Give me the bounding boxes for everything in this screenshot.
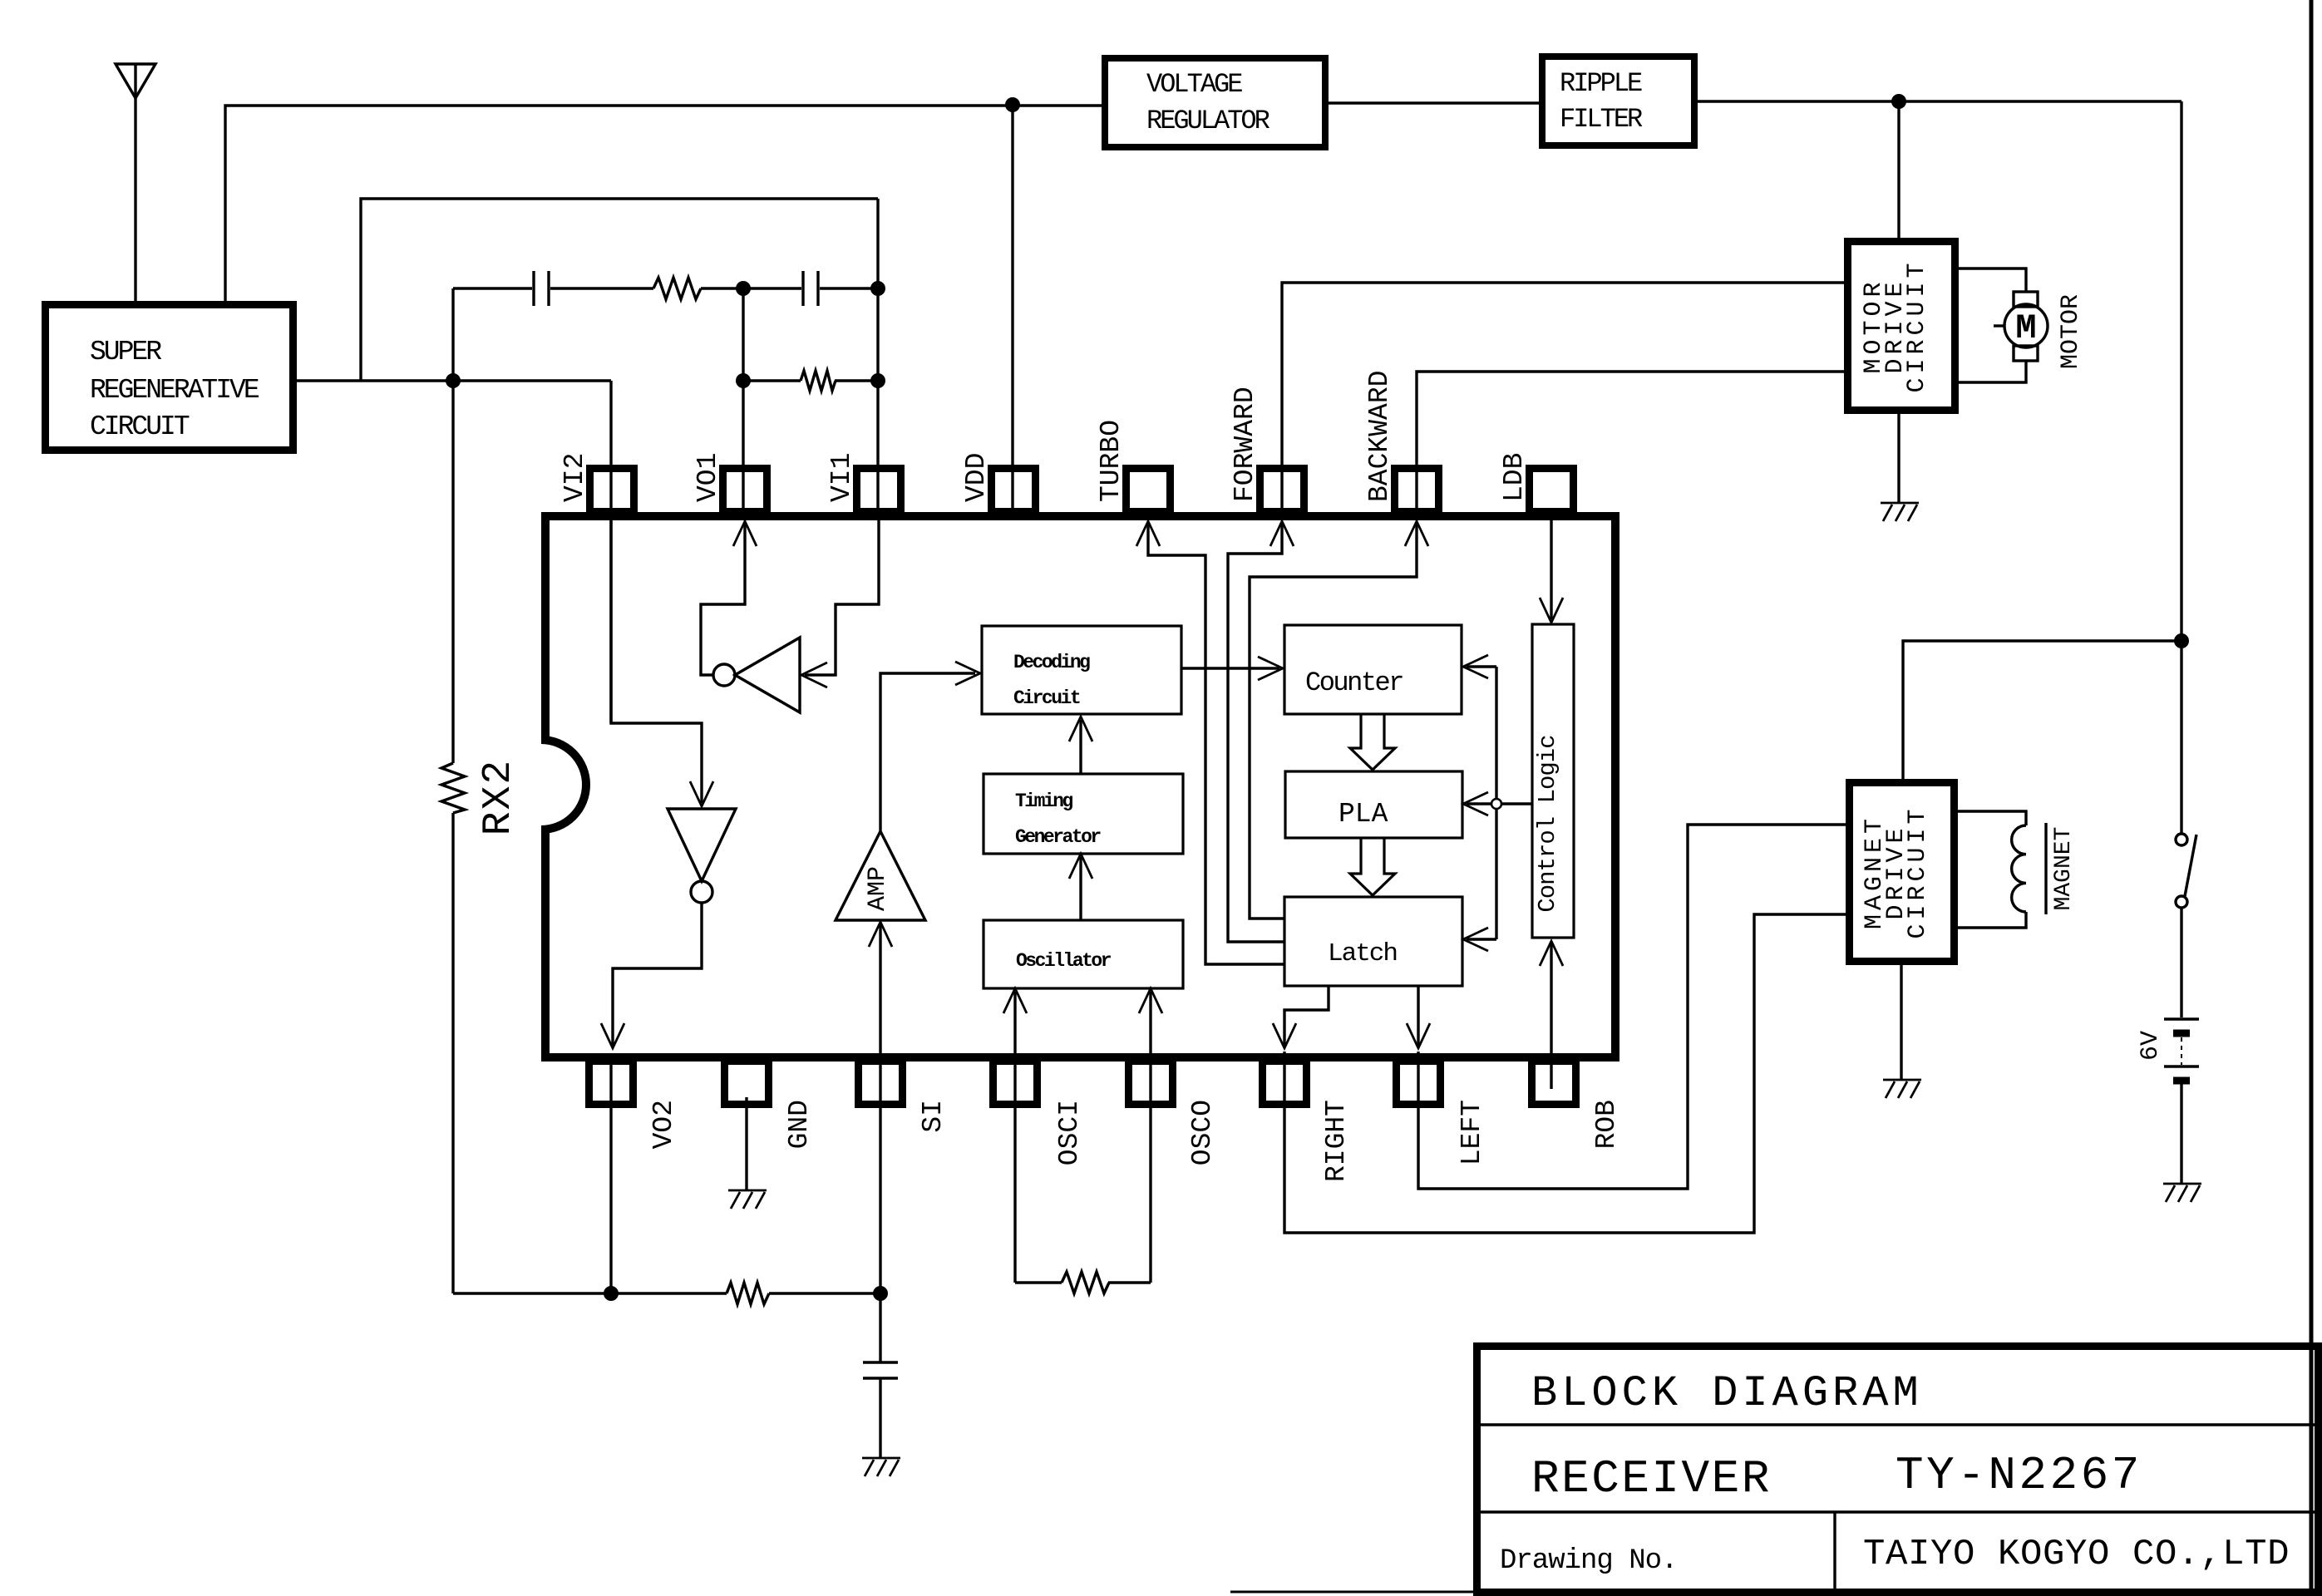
svg-text:MAGNET: MAGNET <box>2051 827 2077 911</box>
wire VI2 drop <box>609 381 612 723</box>
block arrow counter to PLA <box>1350 714 1395 770</box>
node feedback left <box>446 373 461 388</box>
wire switch to battery <box>2180 908 2182 1017</box>
capacitor C1 <box>534 271 549 306</box>
block arrow PLA to latch <box>1350 838 1395 895</box>
ground at battery <box>2163 1184 2201 1202</box>
wire VI1 drop <box>876 199 879 516</box>
resistor R1 <box>653 278 701 299</box>
pin VI1 <box>857 469 901 512</box>
wire R2 to VI1 line <box>835 379 878 382</box>
wire bottom chain left <box>453 1292 727 1294</box>
arrow into PLA right <box>1463 792 1488 815</box>
battery BT1 6V <box>2164 1017 2199 1020</box>
svg-text:TAIYO KOGYO CO.,LTD: TAIYO KOGYO CO.,LTD <box>1863 1534 2290 1575</box>
box MAGNET DRIVE CIRCUIT <box>1850 783 1955 962</box>
wire magnet drive to coil bottom <box>1955 912 2026 928</box>
wire branch up to VI1 bus <box>361 199 878 381</box>
inverter U2 bubble <box>691 881 712 903</box>
wire C3 to ground <box>879 1378 881 1458</box>
motor M1 <box>2004 304 2048 347</box>
arrow into inverter U2 <box>690 781 713 806</box>
wire VO2 external <box>609 1053 612 1293</box>
box Timing Generator <box>984 774 1183 854</box>
ground at GND pin <box>728 1190 767 1209</box>
wire VO1 riser <box>742 288 744 516</box>
svg-text:SI: SI <box>918 1100 949 1133</box>
wire timing generator to decoding circuit <box>1079 720 1082 774</box>
wire FORWARD internal to latch <box>1228 523 1284 942</box>
pin ROB <box>1532 1062 1576 1105</box>
junction circle control rail <box>1491 799 1501 809</box>
wire magnet drive to ground <box>1900 962 1902 1080</box>
wire ROB to control logic <box>1550 943 1552 1089</box>
IC notch erase <box>534 743 557 826</box>
arrow up at VO1 <box>733 521 757 546</box>
arrow into counter right <box>1463 655 1488 678</box>
capacitor C3 at SI <box>863 1362 898 1378</box>
arrow at VO2 <box>601 1023 624 1048</box>
wire OSCO internal <box>1149 992 1151 1283</box>
box Decoding Circuit <box>982 626 1181 714</box>
svg-text:OSCO: OSCO <box>1187 1100 1218 1165</box>
wire OSCI internal <box>1013 992 1016 1283</box>
svg-text:GND: GND <box>784 1100 815 1149</box>
svg-text:RX2: RX2 <box>476 759 521 835</box>
wire RIGHT to magnet drive <box>1284 914 1847 1233</box>
wire motor drive to motor top <box>1955 268 2026 292</box>
box Counter <box>1284 625 1462 714</box>
svg-text:VO1: VO1 <box>693 453 723 502</box>
ground at magnet drive <box>1883 1080 1921 1098</box>
arrow into control logic top <box>1540 598 1563 623</box>
ground at motor drive <box>1881 503 1919 521</box>
resistor R4 <box>1062 1272 1109 1293</box>
wire VDD feed <box>1011 105 1013 511</box>
IC notch arc <box>541 740 586 830</box>
node VO2 bottom <box>604 1286 619 1301</box>
IC RX2 body <box>545 516 1615 1057</box>
svg-text:REGULATOR: REGULATOR <box>1146 106 1270 136</box>
svg-text:RIPPLE: RIPPLE <box>1560 68 1642 99</box>
wire OSCI OSCO loop <box>1015 1281 1151 1283</box>
wire RF to right rail <box>1694 100 2181 102</box>
wire oscillator to timing generator <box>1079 857 1082 920</box>
resistor RX2 <box>441 763 465 813</box>
amplifier AMP <box>836 831 925 920</box>
svg-text:Drawing No.: Drawing No. <box>1500 1545 1677 1577</box>
title block row line 2 <box>1481 1510 2318 1513</box>
pin OSCI <box>993 1062 1038 1105</box>
svg-text:RECEIVER: RECEIVER <box>1531 1452 1772 1505</box>
wire right rail down to switch <box>2180 101 2182 834</box>
box Latch <box>1284 897 1462 986</box>
svg-text:Timing: Timing <box>1015 791 1073 812</box>
svg-text:VOLTAGE: VOLTAGE <box>1146 69 1242 100</box>
wire C1 to R1 <box>550 287 653 289</box>
motor left tick <box>1994 324 2004 327</box>
wire left rail lower <box>451 813 454 1293</box>
motor M1 terminals <box>2014 292 2038 307</box>
wire VR to RF <box>1325 101 1542 104</box>
svg-text:BLOCK DIAGRAM: BLOCK DIAGRAM <box>1531 1369 1923 1418</box>
svg-text:Circuit: Circuit <box>1013 687 1080 709</box>
svg-text:Oscillator: Oscillator <box>1016 950 1112 972</box>
wire antenna bus to voltage regulator <box>225 106 1105 301</box>
pin SI <box>859 1062 903 1105</box>
svg-text:Control Logic: Control Logic <box>1534 735 1561 912</box>
svg-text:PLA: PLA <box>1338 799 1388 830</box>
wire BACKWARD to motor drive <box>1417 372 1846 511</box>
node VI1 top <box>870 281 885 296</box>
arrow into control logic bottom <box>1540 941 1563 966</box>
box MOTOR DRIVE CIRCUIT <box>1848 242 1955 411</box>
node VO1 mid <box>736 373 751 388</box>
magnet core line <box>2044 823 2047 914</box>
node SI bottom <box>873 1286 888 1301</box>
svg-text:RIGHT: RIGHT <box>1321 1100 1352 1182</box>
resistor R3 <box>727 1283 769 1304</box>
pin VO1 <box>723 469 767 512</box>
arrow into inverter U1 input <box>801 663 827 687</box>
title block column divider <box>1833 1512 1836 1591</box>
box SUPER REGENERATIVE CIRCUIT <box>46 305 293 451</box>
wire left rail upper <box>451 381 454 763</box>
title block row line 1 <box>1481 1423 2318 1426</box>
resistor R2 <box>801 371 836 391</box>
wire magnet drive to coil top <box>1955 811 2026 825</box>
ground below SI cap <box>862 1458 900 1476</box>
wire VI2 internal <box>611 516 702 803</box>
inverter U1 bubble <box>713 664 735 686</box>
box PLA <box>1285 771 1462 838</box>
wire inverter U2 output to VO2 <box>613 903 702 1046</box>
pin VO2 <box>589 1062 633 1105</box>
pin VDD <box>992 469 1036 512</box>
wire cap chain left riser <box>451 288 454 381</box>
svg-text:FILTER: FILTER <box>1560 104 1643 135</box>
svg-text:LEFT: LEFT <box>1457 1100 1487 1165</box>
arrow into AMP <box>869 922 892 947</box>
inverter U1 <box>735 638 800 712</box>
arrow up at FORWARD <box>1270 521 1294 546</box>
wire motor drive to motor bottom <box>1955 361 2026 382</box>
wire control logic to PLA <box>1467 802 1532 805</box>
svg-text:MAGNETDRIVECIRCUIT: MAGNETDRIVECIRCUIT <box>1861 805 1932 938</box>
pin RIGHT <box>1263 1062 1307 1105</box>
pin OSCO <box>1129 1062 1173 1105</box>
svg-text:TURBO: TURBO <box>1096 420 1126 502</box>
capacitor C2 <box>803 271 818 306</box>
wire SI internal and external <box>879 924 881 1362</box>
svg-text:Generator: Generator <box>1015 826 1101 848</box>
arrow TG to DC <box>1069 717 1092 741</box>
arrow OSCO into oscillator <box>1139 988 1162 1013</box>
svg-text:BACKWARD: BACKWARD <box>1364 371 1395 502</box>
svg-text:TY-N2267: TY-N2267 <box>1896 1449 2142 1502</box>
svg-text:VI2: VI2 <box>560 453 590 502</box>
svg-text:LDB: LDB <box>1499 453 1530 502</box>
box VOLTAGE REGULATOR <box>1105 58 1325 147</box>
arrow up at BACKWARD <box>1405 521 1428 546</box>
svg-text:Counter: Counter <box>1305 667 1403 698</box>
pin LDB <box>1530 469 1574 512</box>
pin VI2 <box>590 469 634 512</box>
svg-text:CIRCUIT: CIRCUIT <box>90 411 190 442</box>
pin BACKWARD <box>1395 469 1439 512</box>
wire VI1 internal <box>805 519 879 675</box>
wire latch to LEFT pin <box>1417 986 1419 1046</box>
pin GND <box>725 1062 769 1105</box>
wire BACKWARD internal to latch <box>1250 523 1417 919</box>
arrow into counter <box>1258 657 1283 680</box>
svg-text:MOTORDRIVECIRCUIT: MOTORDRIVECIRCUIT <box>1860 259 1931 392</box>
wire cap chain top: segment to C1 <box>453 287 532 289</box>
arrow up at TURBO <box>1136 521 1160 546</box>
wire control logic rail <box>1495 667 1497 939</box>
pin FORWARD <box>1260 469 1304 512</box>
page edge right <box>2310 0 2314 1596</box>
wire decoding circuit to counter <box>1181 667 1279 669</box>
wire R3 to SI node <box>769 1292 880 1294</box>
wire rail to counter <box>1467 665 1496 667</box>
svg-text:M: M <box>2015 308 2036 348</box>
node at magnet branch <box>2174 633 2189 648</box>
node at VDD feed <box>1005 97 1020 112</box>
pin LEFT <box>1397 1062 1441 1105</box>
box Control Logic <box>1532 624 1574 938</box>
magnet coil L1 <box>2012 825 2026 912</box>
wire motor drive feed <box>1897 101 1900 241</box>
svg-text:VDD: VDD <box>961 453 992 502</box>
svg-text:SUPER: SUPER <box>90 337 161 367</box>
wire rail to latch <box>1467 938 1496 940</box>
node VI1 mid <box>870 373 885 388</box>
arrow OSCI into oscillator <box>1003 988 1027 1013</box>
svg-text:VO2: VO2 <box>648 1100 679 1149</box>
wire R1 to C2 <box>701 287 801 289</box>
wire motor drive to ground <box>1897 411 1900 503</box>
svg-text:MOTOR: MOTOR <box>2057 294 2085 369</box>
wire magnet drive feed <box>1903 641 2181 781</box>
wire GND pin to ground <box>745 1097 747 1190</box>
wire LEFT to magnet drive <box>1418 825 1847 1189</box>
wire FORWARD to motor drive <box>1282 283 1846 511</box>
arrow at LEFT <box>1407 1023 1430 1048</box>
page edge bottom <box>1230 1591 1477 1594</box>
wire antenna stem <box>134 64 136 301</box>
wire VO1 internal to inverter U1 <box>701 523 745 675</box>
svg-text:AMP: AMP <box>864 866 892 911</box>
arrow into latch right <box>1463 928 1488 951</box>
arrow into decoding circuit <box>955 662 980 685</box>
wire latch to RIGHT pin <box>1284 986 1329 1046</box>
svg-text:VI1: VI1 <box>826 453 857 502</box>
svg-text:ROB: ROB <box>1591 1100 1622 1149</box>
arrow OSC to TG <box>1069 854 1092 879</box>
svg-text:FORWARD: FORWARD <box>1230 387 1260 502</box>
wire LDB internal <box>1550 516 1552 619</box>
svg-text:Latch: Latch <box>1328 939 1397 968</box>
arrow at RIGHT <box>1273 1023 1296 1048</box>
svg-text:REGENERATIVE: REGENERATIVE <box>90 375 259 406</box>
svg-text:OSCI: OSCI <box>1054 1100 1085 1165</box>
wire node to R2 <box>743 379 801 382</box>
node VO1 top <box>736 281 751 296</box>
node at motor feed <box>1891 94 1906 109</box>
wire battery to ground <box>2180 1084 2182 1184</box>
pin TURBO <box>1126 469 1171 512</box>
svg-text:Decoding: Decoding <box>1013 652 1090 673</box>
wire AMP output to decoding circuit <box>880 673 975 831</box>
wire super regen output <box>297 379 611 382</box>
title block frame <box>1477 1347 2319 1593</box>
wire TURBO internal to latch <box>1148 523 1284 964</box>
wire C2 to VI1 node <box>820 287 878 289</box>
switch S1 <box>2176 834 2187 845</box>
box RIPPLE FILTER <box>1542 57 1694 145</box>
inverter U2 <box>668 809 736 881</box>
svg-text:6V: 6V <box>2137 1031 2165 1061</box>
antenna AE1 <box>116 64 155 98</box>
box Oscillator <box>984 920 1183 988</box>
